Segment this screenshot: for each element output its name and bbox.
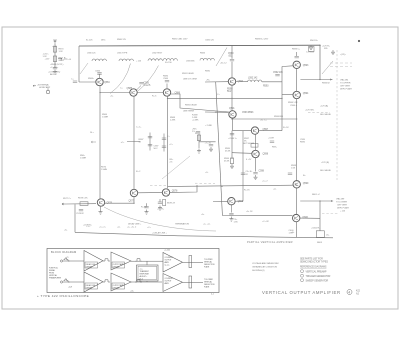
svg-text:R593 C+: R593 C+ <box>292 49 301 51</box>
capacitor C596 <box>241 173 245 174</box>
wire: Q586 collector drop <box>167 96 169 188</box>
svg-text:R591 DELAY: R591 DELAY <box>182 72 194 75</box>
transistor Q600 <box>293 214 300 221</box>
svg-text:B578 +R: B578 +R <box>167 203 175 205</box>
svg-text:CRT VERT: CRT VERT <box>340 86 351 88</box>
wire: C590 drop from rail <box>231 45 233 58</box>
transistor Q577 <box>130 189 137 196</box>
svg-text:+ DELAY LINE +: + DELAY LINE + <box>152 232 168 235</box>
wire: Q577 stub <box>133 197 135 203</box>
wire: tick y141.5 <box>127 141 140 143</box>
svg-text:+L+ +5+ 2: +L+ +5+ 2 <box>127 227 137 229</box>
wire: x282 to Q593 base <box>282 65 293 68</box>
svg-text:R581 C581 125V: R581 C581 125V <box>172 39 188 41</box>
capacitor C598 <box>253 173 257 174</box>
capacitor C592 <box>275 75 279 76</box>
resistor box below Q578 <box>163 200 166 206</box>
amplifier: output amplifier upper <box>163 253 183 273</box>
ground x232 <box>230 164 234 169</box>
wire: output to upper CRT plate <box>300 79 332 81</box>
capacitor C596b below Q596 <box>229 214 233 215</box>
transistor Q593 <box>293 61 300 68</box>
network: C587 chain A <box>149 133 151 151</box>
delay glyph upper <box>135 259 142 262</box>
svg-text:TO LOWER: TO LOWER <box>336 202 347 204</box>
arrow: upper plate <box>330 79 333 81</box>
cluster below: R579 <box>146 203 148 206</box>
wire: Q590 emitter drop <box>231 85 233 111</box>
big callout sweep curve <box>104 207 216 231</box>
series resistor out lower <box>189 276 192 288</box>
inductor L583 <box>163 59 177 61</box>
svg-text:+C597: +C597 <box>268 138 275 140</box>
svg-text:SET 100MA: SET 100MA <box>243 142 254 145</box>
svg-text:Q577: Q577 <box>129 200 135 203</box>
wire: Q600 emitter stub <box>295 222 297 238</box>
svg-text:R577 C+: R577 C+ <box>63 198 72 200</box>
svg-text:DRIVER: DRIVER <box>113 266 120 268</box>
delay glyph lower <box>135 280 142 283</box>
svg-text:R578 1.5K: R578 1.5K <box>78 198 88 200</box>
wire: left drop from top rail <box>78 46 80 82</box>
ground below Q596 <box>229 217 233 222</box>
wire: x320 strong vertical <box>319 45 321 79</box>
svg-text:R584+: R584+ <box>88 78 95 80</box>
wire: y142 link <box>199 141 216 143</box>
wire: x320 lower vertical <box>319 201 321 231</box>
node: rail junction at x320 <box>319 45 320 46</box>
capacitor C591 <box>209 145 213 146</box>
transistor Q585 <box>130 89 137 96</box>
svg-text:+12V: +12V <box>45 59 50 61</box>
dashed board edge x337 <box>336 50 338 180</box>
svg-text:+12V (A): +12V (A) <box>320 105 328 108</box>
svg-text:+7+ 25: +7+ 25 <box>205 143 212 145</box>
network: C588 chain B <box>163 134 165 152</box>
svg-text:L592 142: L592 142 <box>248 77 258 80</box>
resistor chain x199 <box>198 134 200 148</box>
svg-text:VIA L594: VIA L594 <box>340 79 349 82</box>
cluster below Q578 <box>159 199 161 202</box>
svg-text:1.5MH: 1.5MH <box>101 169 107 171</box>
resistor R570 <box>53 47 56 53</box>
wire: Q593 emitter down to Q594 <box>296 69 298 92</box>
wire: x232 lower vertical <box>231 131 233 159</box>
svg-text:TERMINATION: TERMINATION <box>175 223 189 226</box>
ref item 2 <box>301 274 304 277</box>
callout curve delay line left <box>110 64 131 94</box>
svg-text:Q584: Q584 <box>104 81 110 84</box>
inductor L581 <box>119 59 133 61</box>
svg-text:+ 2.49K: + 2.49K <box>205 125 213 127</box>
svg-text:C582 125: C582 125 <box>205 40 215 42</box>
amplifier: delay line driver upper <box>84 251 103 272</box>
wire box up <box>146 261 148 265</box>
wire: input bus y204 <box>66 203 96 205</box>
wire: Q578 right link <box>170 185 197 192</box>
svg-text:PARTIAL VERTICAL AMPLIFIER: PARTIAL VERTICAL AMPLIFIER <box>247 240 293 244</box>
sel value dashes right top <box>330 62 352 64</box>
svg-text:R+ 1K: R+ 1K <box>244 190 250 192</box>
block diagram box <box>47 249 219 293</box>
dashes sel value <box>308 112 330 114</box>
svg-text:AMPL: AMPL <box>165 282 170 285</box>
capacitor C599 <box>288 173 292 174</box>
svg-text:B+ 225: B+ 225 <box>86 40 93 42</box>
transistor Q599 <box>293 181 300 188</box>
svg-text:VOLTAGE AND WAVEFORM: VOLTAGE AND WAVEFORM <box>252 262 279 265</box>
svg-text:ADJ +2: ADJ +2 <box>50 73 58 76</box>
svg-text:R+ 2+: R+ 2+ <box>195 133 201 135</box>
svg-text:L580 125: L580 125 <box>87 53 96 55</box>
svg-text:R+ 56: R+ 56 <box>141 207 147 209</box>
wire lower input <box>63 281 84 283</box>
wire: Q600 to R601 <box>300 217 320 219</box>
transistor Q596 <box>228 198 235 205</box>
svg-text:R580 125: R580 125 <box>117 39 127 41</box>
svg-text:R+ 1K: R+ 1K <box>283 127 289 129</box>
svg-text:+L+: +L+ <box>66 257 69 259</box>
wire: y112 link <box>205 111 229 113</box>
svg-text:1.5K: 1.5K <box>234 222 239 224</box>
svg-text:+5+ 2K: +5+ 2K <box>246 211 253 213</box>
wire: Q597 collector bus <box>259 130 282 132</box>
svg-text:HORIZ AMP: HORIZ AMP <box>39 86 51 89</box>
svg-text:1.5K: 1.5K <box>291 168 296 170</box>
wire: Q586 emitter to delay line <box>171 94 229 112</box>
resistor R578 on wire <box>80 202 88 206</box>
ground bias chain <box>53 70 57 75</box>
svg-text:+12V: +12V <box>52 46 57 48</box>
svg-text:R501 B+: R501 B+ <box>310 40 319 42</box>
transistor Q578 <box>162 189 169 196</box>
pointer diagonal at corner <box>80 63 88 74</box>
wire: Q577 to Q578 <box>138 192 162 194</box>
transistor Q598 <box>252 150 259 157</box>
transistor Q576 <box>97 199 104 206</box>
svg-text:BLOCK DIAGRAM: BLOCK DIAGRAM <box>51 250 77 254</box>
dot punch mark top right <box>358 40 360 42</box>
transistor Q590 <box>228 78 235 85</box>
svg-text:Q+ Q+: Q+ Q+ <box>165 265 170 267</box>
capacitor C589 <box>196 132 200 133</box>
capacitor C586 top stub of Q586 <box>166 84 168 89</box>
wire: Q594 base feed <box>282 94 293 96</box>
svg-text:LINE TERM: LINE TERM <box>183 111 194 113</box>
svg-text:+ 125: + 125 <box>136 61 142 63</box>
coupling resistor lower <box>103 280 110 282</box>
svg-text:L581 TYPE: L581 TYPE <box>117 53 128 55</box>
arrow input left <box>62 203 66 205</box>
wire: long vertical x215.6 <box>216 82 223 216</box>
wire: Q585 collector drop <box>133 96 135 189</box>
ground at x333 top <box>331 50 335 55</box>
series resistor out upper <box>189 256 192 268</box>
terminal circle ext horiz <box>46 90 49 93</box>
svg-text:+C+ R+: +C+ R+ <box>157 209 165 211</box>
wire: vertical x282 <box>281 67 283 131</box>
svg-text:DEFL PLATE: DEFL PLATE <box>337 207 350 210</box>
transistor Q586 <box>163 89 170 96</box>
callout curve delay line right <box>138 66 159 92</box>
box B501 <box>309 47 315 52</box>
svg-text:Q599: Q599 <box>303 182 309 185</box>
svg-text:+L5+: +L5+ <box>130 291 134 293</box>
svg-text:+C601 R+: +C601 R+ <box>311 228 321 230</box>
current source stack top: arrow <box>53 40 57 44</box>
wire: bus to Q585 base <box>100 92 130 94</box>
svg-text:Q585: Q585 <box>127 87 133 90</box>
wire: Q599 emitter down to Q600 <box>295 188 297 214</box>
diode CR501 at rail <box>309 45 313 50</box>
title circled 4 <box>347 290 352 295</box>
capacitor C593b above Q593 <box>296 52 298 56</box>
inductor L580 <box>92 59 106 61</box>
wire: input to Q584 base <box>79 81 96 83</box>
wire: y152 link to Q598 <box>232 152 252 155</box>
ref item 3 <box>301 279 304 282</box>
wire: Q597 emitter down <box>255 134 257 150</box>
wire box down <box>146 281 148 282</box>
svg-text:Q600: Q600 <box>302 216 308 219</box>
wire: Q584 collector drop <box>99 86 101 199</box>
wire: Q594 down long <box>296 99 298 181</box>
svg-text:C+ 1+: C+ 1+ <box>136 127 142 129</box>
ground x199 <box>197 149 201 154</box>
pointer diagonal lower mid <box>162 156 190 179</box>
svg-text:Q591: Q591 <box>229 107 235 110</box>
capacitor C580 at box corner <box>73 81 77 82</box>
wire: long rail y185 <box>168 185 293 186</box>
inductor L584 <box>200 58 214 60</box>
svg-text:+ TYPE 422 OSCILLOSCOPE: + TYPE 422 OSCILLOSCOPE <box>37 294 89 298</box>
svg-text:C+ R501: C+ R501 <box>306 52 315 54</box>
svg-text:R596 B96: R596 B96 <box>274 116 284 118</box>
svg-text:REFERENCE DIAGRAMS: REFERENCE DIAGRAMS <box>300 266 327 269</box>
amplifier: output amp driver lower <box>111 273 131 291</box>
wire: C590 to Q590 <box>231 62 233 78</box>
svg-text:L582 TEST: L582 TEST <box>152 53 163 55</box>
svg-text:R59+: R59+ <box>272 147 278 149</box>
resistor box R596c <box>251 144 258 148</box>
svg-text:OBTAINED AT CONDITION: OBTAINED AT CONDITION <box>252 266 277 269</box>
dash lead left of rail <box>150 184 166 186</box>
wire mid lower <box>131 281 162 283</box>
svg-text:Q598: Q598 <box>263 153 269 156</box>
long rail y185 dashed lead <box>195 182 215 184</box>
wire: Q591 emitter drop <box>232 118 234 131</box>
wire: lower-left return drop <box>74 204 76 232</box>
svg-text:DEC: DEC <box>101 40 106 42</box>
svg-text:R594 82: R594 82 <box>322 83 330 85</box>
svg-text:+12V (B): +12V (B) <box>321 162 329 164</box>
svg-text:+ 125: + 125 <box>340 211 346 213</box>
wire: Q591 to Q597 <box>233 130 252 132</box>
svg-text:1.2K: 1.2K <box>59 51 64 53</box>
ground Q576 <box>100 206 102 209</box>
callout curve Q590 <box>216 48 227 67</box>
wire: base bus y119 <box>232 118 297 120</box>
wire: +225V top supply rail <box>79 44 320 47</box>
svg-text:1.5MH: 1.5MH <box>102 117 108 119</box>
board outline bottom <box>178 236 333 238</box>
wire: Q585 to Q586 <box>137 92 163 94</box>
wire: Q590 emitter through L592 <box>236 81 248 83</box>
svg-text:C593 R593: C593 R593 <box>242 111 254 114</box>
resistor R595b <box>230 158 233 164</box>
wire: Q576 to Q577 <box>105 202 134 204</box>
svg-text:+C+ 82: +C+ 82 <box>262 221 269 223</box>
wire: L592 to x282 <box>262 81 282 83</box>
svg-text:VERTICAL PREAMP: VERTICAL PREAMP <box>306 270 327 273</box>
svg-text:+(12)+: +(12)+ <box>340 54 347 56</box>
capacitor C585 on Q585 <box>137 86 142 91</box>
svg-text:C578 82: C578 82 <box>76 213 84 215</box>
svg-text:L583 585: L583 585 <box>186 61 195 63</box>
label dcpl arrow <box>58 58 62 60</box>
capacitor C597 <box>270 141 274 142</box>
svg-text:PREAMPLIFIER: PREAMPLIFIER <box>49 277 62 280</box>
svg-text:+2 +5 C+: +2 +5 C+ <box>50 67 59 69</box>
svg-text:+C+ 2: +C+ 2 <box>262 181 268 183</box>
amplifier: output amp driver upper <box>111 252 131 270</box>
box: transient response adjust <box>137 265 159 281</box>
arrow mid-left <box>91 141 96 143</box>
svg-text:45.3K: 45.3K <box>225 151 231 153</box>
svg-text:R+2 56: R+2 56 <box>165 62 172 64</box>
amplifier: output amplifier lower <box>163 274 183 292</box>
svg-text:TO UPPER: TO UPPER <box>340 83 351 85</box>
ground C591 <box>209 147 213 152</box>
diagonal link top right <box>322 61 333 74</box>
svg-text:R592 DELAY: R592 DELAY <box>185 104 197 107</box>
wire: bias chain vertical <box>54 44 56 68</box>
svg-text:C5+ R+: C5+ R+ <box>246 171 254 173</box>
svg-text:DRIVER: DRIVER <box>86 287 93 289</box>
svg-text:C592 105: C592 105 <box>273 71 283 74</box>
svg-text:SEMICONDUCTOR TYPES: SEMICONDUCTOR TYPES <box>300 261 328 264</box>
svg-text:+L578 B+: +L578 B+ <box>83 225 93 227</box>
amplifier: delay line driver lower <box>84 272 103 292</box>
sel value dashes lower <box>322 213 338 215</box>
ref item 1 <box>301 270 304 273</box>
coupling resistor upper <box>103 259 110 261</box>
svg-text:SEL VALUE: SEL VALUE <box>320 113 331 116</box>
capacitor C595 <box>230 134 234 135</box>
wire: bottom rail y215.5 <box>222 215 292 217</box>
wire: Q598 emitter down <box>255 158 257 172</box>
resistor R602 box <box>316 231 324 238</box>
wire: Q596 collector to x243 <box>235 200 243 202</box>
svg-text:C598: C598 <box>259 170 265 173</box>
svg-text:VIA L599: VIA L599 <box>336 198 345 201</box>
svg-text:4 +2V: 4 +2V <box>246 159 252 161</box>
svg-text:Q594: Q594 <box>303 92 309 95</box>
svg-text:DEFL PLATE: DEFL PLATE <box>340 88 353 91</box>
capacitor C578 below <box>79 210 83 211</box>
wire mid upper <box>131 260 163 262</box>
svg-text:+2.49K: +2.49K <box>192 120 199 122</box>
svg-text:DELAY LINE +: DELAY LINE + <box>128 223 142 226</box>
capacitor C571 <box>53 68 57 69</box>
ground below C598 <box>254 175 258 180</box>
inductor L582 <box>148 59 162 61</box>
svg-text:+12V +B: +12V +B <box>63 59 71 61</box>
wire out lower <box>183 281 204 283</box>
arrow: lower plate <box>331 200 334 202</box>
resistor R571 <box>53 56 56 62</box>
wire: Q596 emitter down <box>230 205 232 213</box>
transistor Q584 <box>96 78 103 85</box>
wire: Q596 base feed <box>213 200 228 202</box>
svg-text:Q593: Q593 <box>303 64 309 67</box>
svg-text:1.5MH: 1.5MH <box>80 158 86 160</box>
svg-text:2.49K: 2.49K <box>170 120 176 122</box>
svg-text:C594 +: C594 + <box>290 105 297 107</box>
svg-text:+C595 1+: +C595 1+ <box>228 138 238 140</box>
input terminal upper <box>60 260 62 262</box>
arrow ext horiz <box>33 85 36 87</box>
svg-text:4: 4 <box>348 291 350 295</box>
wire: x243 vertical <box>242 131 244 201</box>
input terminal lower <box>60 281 62 283</box>
wire: emitter bus y98 <box>168 97 283 99</box>
svg-text:SHOWN A (1): SHOWN A (1) <box>252 269 265 272</box>
wire: Q590 base feed y82 <box>205 81 228 83</box>
svg-text:R583 B+ 125V: R583 B+ 125V <box>255 39 269 41</box>
wire: bottom return run <box>75 232 178 235</box>
wire out upper <box>183 261 204 263</box>
transistor Q591 <box>229 111 236 118</box>
wire: lower output y201 <box>300 200 331 202</box>
wire upper input <box>63 260 84 262</box>
svg-text:R593: R593 <box>263 85 269 88</box>
transistor Q594 <box>293 91 300 98</box>
svg-text:SEL VALUE: SEL VALUE <box>320 169 331 172</box>
svg-text:+R584 (DCPL): +R584 (DCPL) <box>50 64 64 66</box>
svg-text:SWEEP GENERATOR: SWEEP GENERATOR <box>306 279 329 282</box>
svg-text:CRT VERT: CRT VERT <box>337 205 348 207</box>
svg-text:+C+ 2+: +C+ 2+ <box>99 226 106 228</box>
transistor Q597 <box>251 127 258 134</box>
svg-text:+5+ C+: +5+ C+ <box>260 120 267 122</box>
svg-text:+12V SEL: +12V SEL <box>305 110 315 112</box>
svg-text:DRIVER: DRIVER <box>113 287 120 289</box>
svg-text:LINE 175 OHM: LINE 175 OHM <box>183 79 197 81</box>
svg-text:A +2: A +2 <box>140 278 143 281</box>
node dots <box>99 92 100 93</box>
svg-text:TRIGGER GENERATOR: TRIGGER GENERATOR <box>306 275 331 278</box>
svg-text:+B+ 12: +B+ 12 <box>220 63 227 65</box>
svg-text:VERTICAL OUTPUT AMPLIFIER: VERTICAL OUTPUT AMPLIFIER <box>262 290 341 295</box>
svg-text:+L+ +2+: +L+ +2+ <box>203 224 211 226</box>
svg-text:45.3K: 45.3K <box>224 161 230 163</box>
svg-text:+L+ 422: +L+ 422 <box>164 250 170 252</box>
svg-text:R601 +C: R601 +C <box>312 194 321 196</box>
inductor L592 <box>248 80 262 82</box>
capacitor C584 top stub of Q584 <box>99 75 101 79</box>
svg-text:DRIVER: DRIVER <box>86 266 93 268</box>
